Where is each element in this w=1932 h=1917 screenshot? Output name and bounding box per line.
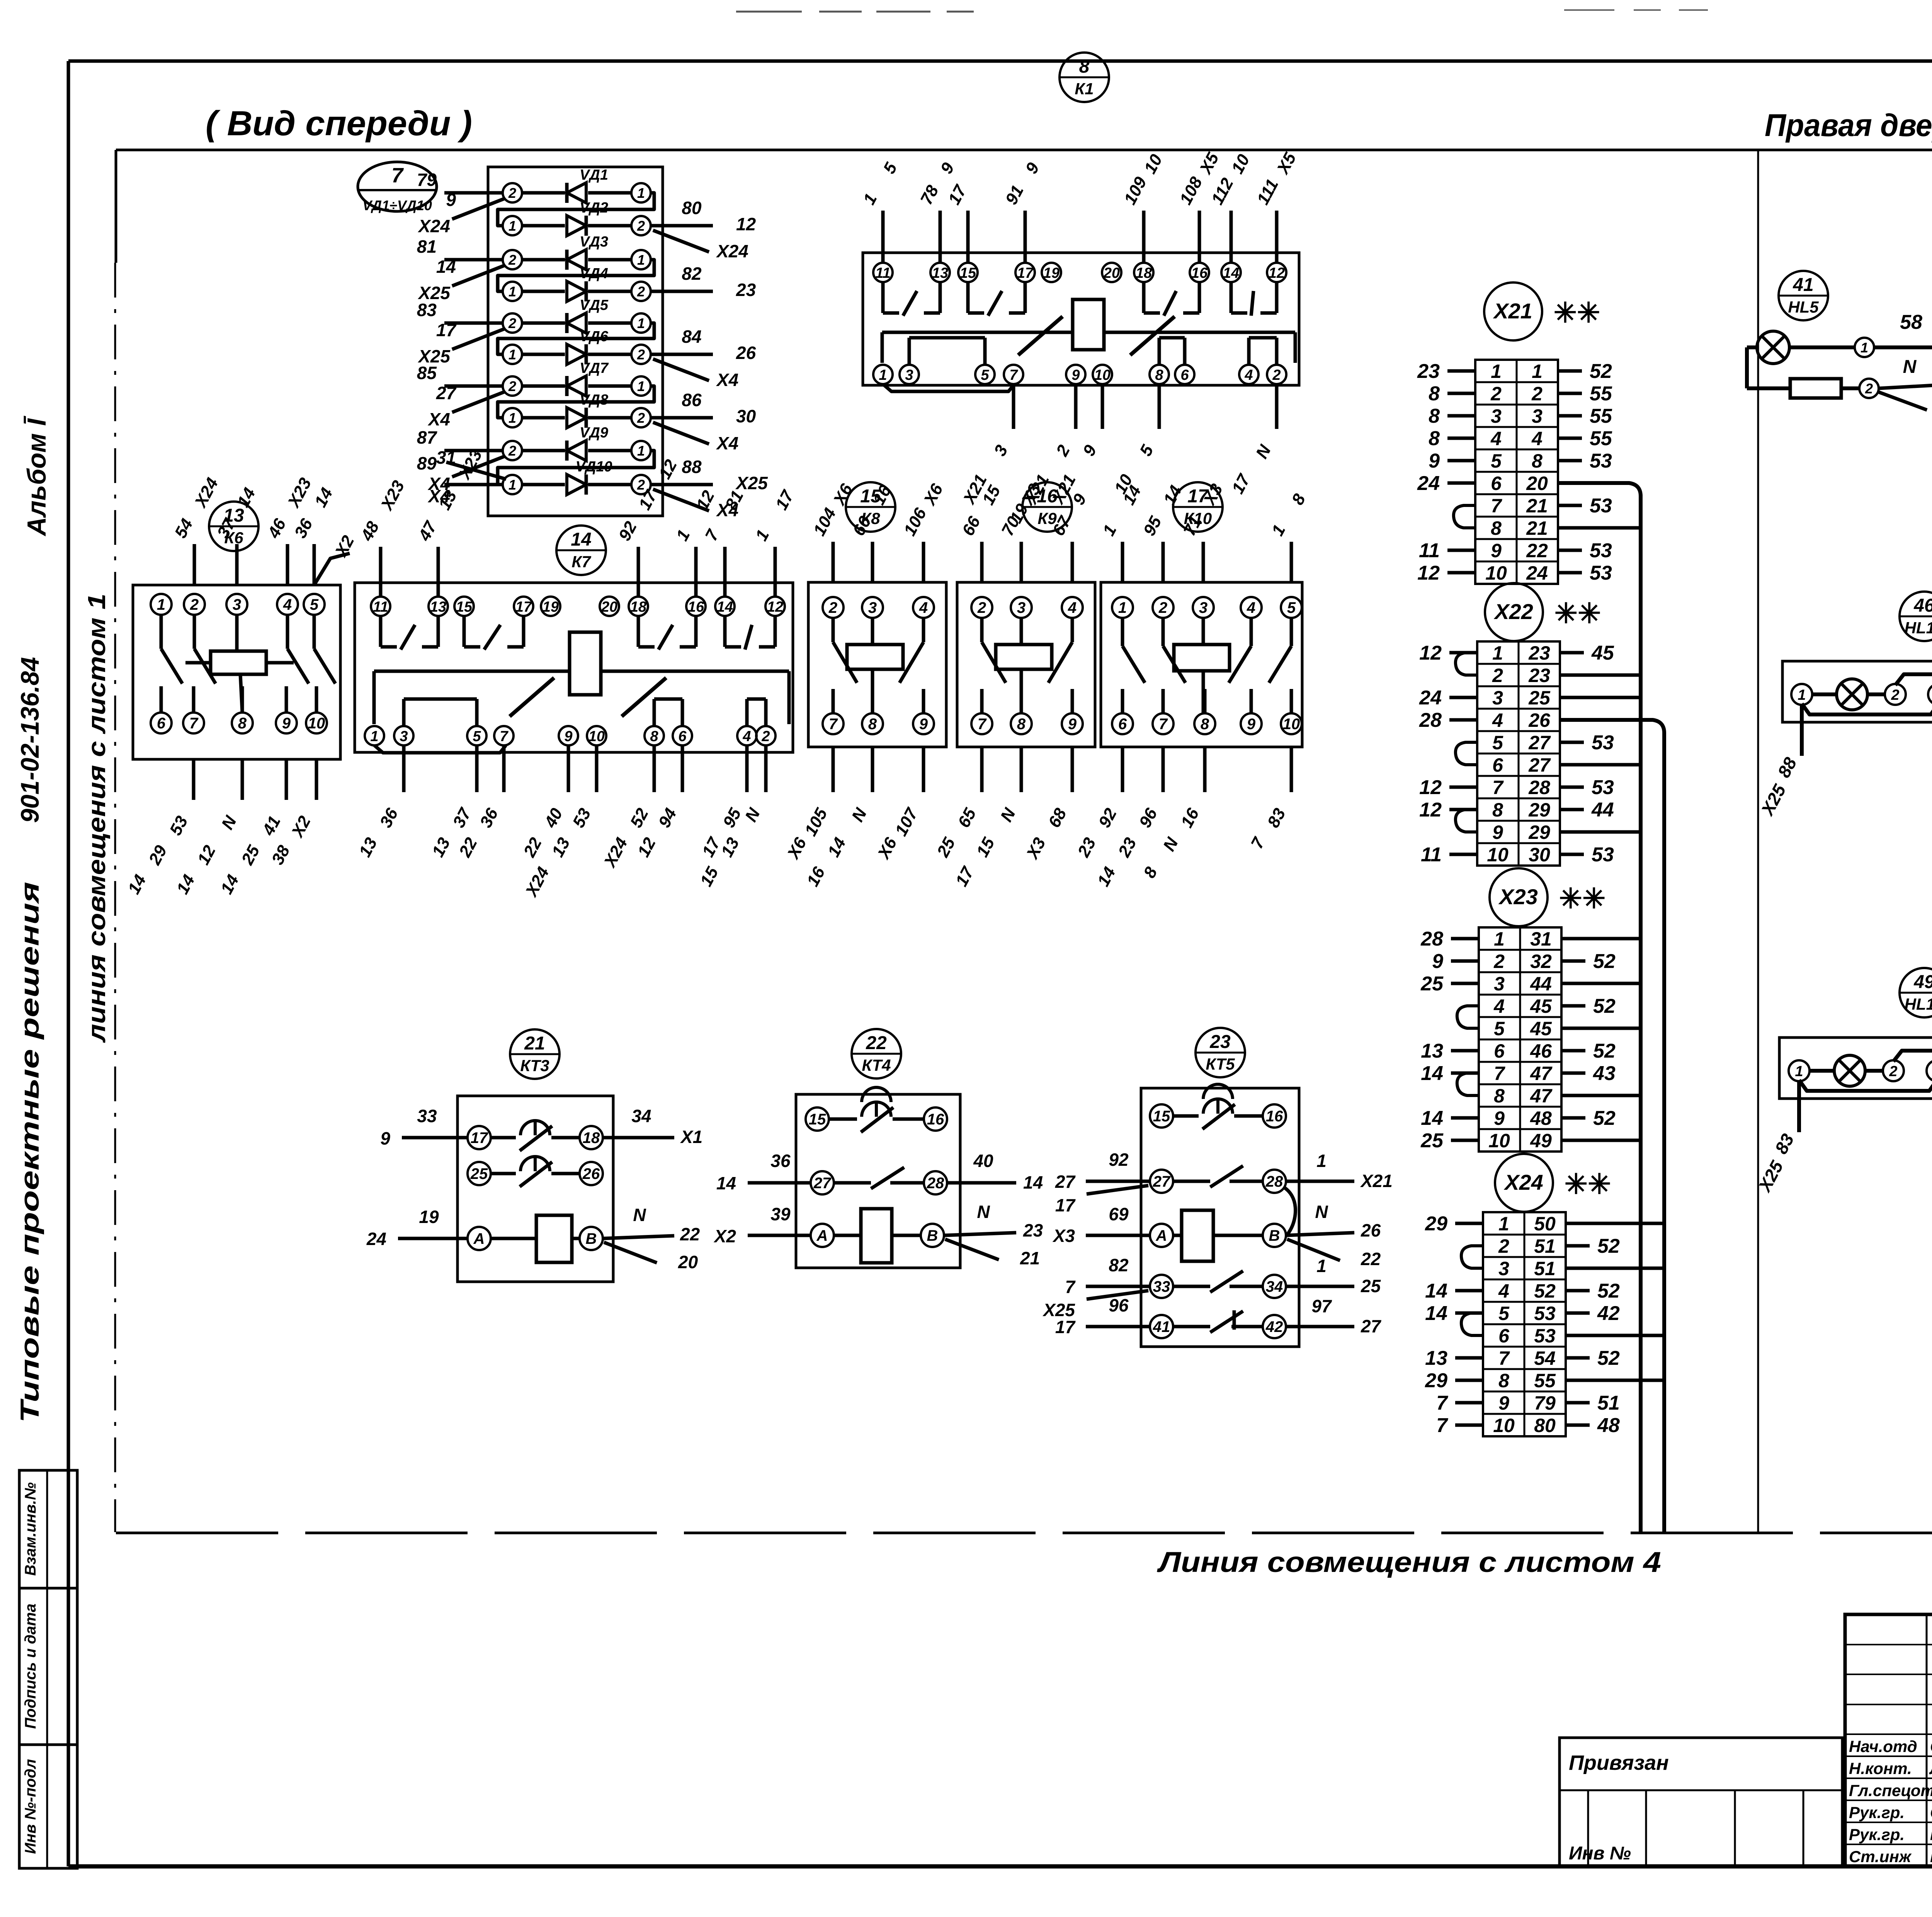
svg-text:1: 1 — [1118, 599, 1127, 616]
svg-text:X4: X4 — [716, 370, 738, 390]
svg-text:13: 13 — [932, 265, 948, 281]
svg-text:7: 7 — [1436, 1414, 1448, 1437]
svg-text:2: 2 — [1272, 367, 1281, 383]
svg-text:2: 2 — [1492, 665, 1503, 686]
svg-text:53: 53 — [1590, 450, 1612, 472]
svg-text:VД6: VД6 — [580, 328, 609, 345]
svg-text:X1: X1 — [680, 1127, 702, 1147]
svg-text:1: 1 — [1861, 340, 1868, 356]
svg-text:52: 52 — [1597, 1235, 1620, 1257]
svg-text:8: 8 — [1494, 1085, 1505, 1107]
svg-text:8: 8 — [1429, 427, 1440, 450]
svg-text:9: 9 — [1491, 540, 1502, 561]
svg-text:26: 26 — [736, 343, 756, 363]
svg-text:1: 1 — [509, 477, 516, 493]
svg-text:15: 15 — [1153, 1108, 1170, 1125]
svg-text:4: 4 — [1068, 599, 1077, 616]
svg-text:55: 55 — [1590, 405, 1612, 427]
svg-text:21: 21 — [1526, 495, 1548, 517]
svg-text:43: 43 — [1593, 1062, 1616, 1085]
svg-text:X24: X24 — [716, 241, 748, 261]
svg-text:53: 53 — [1592, 776, 1614, 799]
svg-text:92: 92 — [1109, 1150, 1129, 1170]
svg-text:6: 6 — [1498, 1325, 1510, 1347]
svg-text:44: 44 — [1530, 973, 1552, 995]
svg-text:10: 10 — [1283, 716, 1300, 733]
svg-text:3: 3 — [1199, 599, 1207, 616]
svg-text:1: 1 — [1798, 687, 1806, 703]
svg-text:11: 11 — [1421, 844, 1442, 866]
svg-text:1: 1 — [1492, 642, 1503, 664]
svg-text:B: B — [586, 1230, 597, 1247]
svg-text:N: N — [1903, 357, 1917, 377]
svg-text:9: 9 — [1498, 1392, 1509, 1414]
svg-text:55: 55 — [1590, 383, 1612, 405]
svg-text:5: 5 — [473, 728, 481, 745]
svg-text:Н.конт.: Н.конт. — [1849, 1759, 1912, 1778]
svg-text:✳✳: ✳✳ — [1565, 1169, 1611, 1200]
svg-text:48: 48 — [1597, 1414, 1620, 1437]
svg-text:9: 9 — [564, 728, 572, 745]
svg-text:4: 4 — [1490, 428, 1502, 449]
svg-text:55: 55 — [1534, 1370, 1556, 1391]
svg-text:5: 5 — [1287, 599, 1296, 616]
svg-text:12: 12 — [1419, 776, 1442, 799]
svg-text:79: 79 — [417, 170, 437, 190]
svg-text:69: 69 — [1109, 1204, 1129, 1224]
svg-text:1: 1 — [509, 347, 516, 362]
svg-text:8: 8 — [1155, 367, 1163, 383]
svg-text:25: 25 — [1420, 1129, 1444, 1152]
svg-text:10: 10 — [1488, 1130, 1510, 1152]
svg-text:97: 97 — [1311, 1296, 1332, 1316]
svg-text:( Вид спереди ): ( Вид спереди ) — [206, 104, 472, 143]
svg-text:20: 20 — [678, 1252, 698, 1272]
svg-text:4: 4 — [742, 728, 751, 745]
svg-text:1: 1 — [1795, 1063, 1803, 1080]
svg-text:53: 53 — [1590, 539, 1612, 562]
svg-text:14: 14 — [1425, 1302, 1447, 1325]
svg-text:2: 2 — [1490, 383, 1502, 405]
svg-text:14: 14 — [1421, 1107, 1443, 1129]
svg-text:9: 9 — [1492, 822, 1503, 843]
svg-text:52: 52 — [1534, 1280, 1556, 1302]
svg-text:23: 23 — [736, 280, 756, 300]
svg-text:39: 39 — [770, 1204, 791, 1224]
svg-text:5: 5 — [310, 596, 319, 613]
svg-text:10: 10 — [1487, 844, 1509, 866]
svg-text:VД2: VД2 — [580, 200, 608, 216]
svg-text:8: 8 — [1429, 383, 1440, 405]
svg-text:52: 52 — [1590, 360, 1612, 383]
svg-text:2: 2 — [637, 284, 645, 299]
svg-text:25: 25 — [1361, 1276, 1381, 1296]
svg-text:53: 53 — [1590, 562, 1612, 584]
svg-text:1: 1 — [157, 596, 165, 613]
svg-text:52: 52 — [1593, 950, 1616, 973]
svg-text:2: 2 — [1889, 1063, 1897, 1080]
svg-text:5: 5 — [1494, 1018, 1505, 1039]
svg-text:14: 14 — [1223, 265, 1239, 281]
svg-text:X24: X24 — [417, 216, 450, 236]
svg-text:6: 6 — [678, 728, 687, 745]
svg-text:Парамонов: Парамонов — [1930, 1825, 1932, 1844]
svg-text:53: 53 — [1590, 495, 1612, 517]
svg-text:52: 52 — [1597, 1347, 1620, 1369]
svg-text:45: 45 — [1530, 995, 1552, 1017]
svg-text:2: 2 — [508, 185, 516, 201]
svg-text:HL13: HL13 — [1905, 995, 1932, 1013]
svg-text:К1: К1 — [1075, 80, 1094, 98]
svg-text:17: 17 — [436, 320, 457, 340]
svg-text:A: A — [1156, 1227, 1167, 1244]
svg-text:22: 22 — [1526, 540, 1548, 561]
svg-text:Подпись и дата: Подпись и дата — [22, 1604, 39, 1729]
svg-text:N: N — [1315, 1202, 1328, 1222]
svg-text:14: 14 — [1425, 1280, 1447, 1302]
svg-text:48: 48 — [1530, 1107, 1552, 1129]
svg-text:16: 16 — [927, 1111, 944, 1128]
svg-text:8: 8 — [1491, 517, 1502, 539]
svg-text:52: 52 — [1593, 995, 1616, 1017]
svg-text:2: 2 — [637, 218, 645, 234]
svg-text:14: 14 — [571, 529, 591, 550]
svg-text:14: 14 — [717, 599, 733, 615]
svg-text:3: 3 — [1492, 687, 1503, 709]
svg-text:85: 85 — [417, 363, 437, 383]
svg-text:1: 1 — [1316, 1151, 1327, 1171]
svg-text:1: 1 — [509, 410, 516, 426]
svg-text:17: 17 — [515, 599, 532, 615]
svg-text:24: 24 — [366, 1229, 386, 1249]
svg-text:VД1÷VД10: VД1÷VД10 — [362, 197, 432, 213]
svg-text:7: 7 — [391, 164, 404, 187]
svg-text:B: B — [927, 1227, 938, 1244]
svg-text:29: 29 — [1425, 1369, 1447, 1392]
svg-text:2: 2 — [637, 410, 645, 426]
svg-text:Альбом Ī: Альбом Ī — [22, 415, 51, 537]
svg-text:8: 8 — [1498, 1370, 1509, 1391]
svg-text:7: 7 — [1159, 716, 1168, 733]
svg-text:88: 88 — [682, 457, 702, 477]
svg-text:23: 23 — [1528, 642, 1550, 664]
svg-text:1: 1 — [1491, 361, 1502, 382]
svg-text:X4: X4 — [716, 433, 738, 453]
svg-text:2: 2 — [637, 347, 645, 362]
svg-text:26: 26 — [1528, 709, 1551, 731]
svg-text:VД5: VД5 — [580, 297, 609, 313]
svg-text:1: 1 — [1532, 361, 1543, 382]
svg-text:53: 53 — [1592, 844, 1614, 866]
svg-text:51: 51 — [1534, 1235, 1556, 1257]
svg-text:4: 4 — [1493, 995, 1505, 1017]
svg-text:34: 34 — [631, 1106, 651, 1126]
svg-text:2: 2 — [1531, 383, 1543, 405]
svg-text:20: 20 — [1103, 265, 1120, 281]
svg-text:9: 9 — [1247, 716, 1256, 733]
svg-text:12: 12 — [736, 214, 756, 234]
svg-text:53: 53 — [1534, 1325, 1556, 1347]
svg-text:2: 2 — [761, 728, 770, 745]
svg-text:3: 3 — [1017, 599, 1026, 616]
svg-text:50: 50 — [1534, 1213, 1556, 1235]
svg-text:Линия совмещения с листом: Линия совмещения с листом 4 — [1156, 1546, 1661, 1578]
svg-text:6: 6 — [1491, 473, 1502, 494]
svg-text:A: A — [816, 1227, 828, 1244]
svg-text:23: 23 — [1417, 360, 1440, 383]
svg-text:46: 46 — [1913, 595, 1932, 616]
svg-text:Рук.гр.: Рук.гр. — [1849, 1825, 1905, 1844]
svg-text:96: 96 — [1109, 1295, 1129, 1315]
svg-text:12: 12 — [767, 599, 783, 615]
svg-text:Ст.инж: Ст.инж — [1849, 1847, 1912, 1866]
svg-text:53: 53 — [1592, 731, 1614, 754]
svg-text:51: 51 — [1597, 1392, 1620, 1414]
svg-text:Семин: Семин — [1930, 1803, 1932, 1822]
svg-text:23: 23 — [1209, 1032, 1231, 1052]
svg-text:1: 1 — [879, 367, 887, 383]
svg-text:N: N — [633, 1205, 646, 1225]
svg-text:К7: К7 — [571, 553, 591, 571]
svg-text:3: 3 — [1498, 1258, 1509, 1279]
svg-text:8: 8 — [1532, 450, 1543, 472]
svg-text:Типовые проектные решения: Типовые проектные решения — [15, 882, 44, 1423]
svg-text:11: 11 — [875, 265, 890, 281]
svg-text:41: 41 — [1793, 275, 1813, 295]
svg-text:4: 4 — [1247, 599, 1255, 616]
svg-text:14: 14 — [716, 1173, 736, 1193]
svg-text:VД10: VД10 — [575, 459, 612, 475]
svg-text:81: 81 — [417, 236, 437, 257]
svg-text:14: 14 — [436, 257, 456, 277]
svg-text:9: 9 — [1494, 1107, 1505, 1129]
svg-text:3: 3 — [868, 599, 877, 616]
svg-text:9: 9 — [1071, 367, 1080, 383]
svg-text:28: 28 — [1265, 1173, 1283, 1190]
svg-text:19: 19 — [419, 1207, 439, 1227]
svg-text:21: 21 — [1020, 1248, 1040, 1268]
svg-text:86: 86 — [682, 390, 702, 410]
svg-text:✳✳: ✳✳ — [1554, 598, 1601, 629]
svg-text:9: 9 — [1068, 716, 1077, 733]
svg-text:6: 6 — [1494, 1040, 1505, 1062]
svg-text:4: 4 — [1498, 1280, 1509, 1302]
svg-text:9: 9 — [1429, 450, 1440, 472]
svg-text:11: 11 — [1419, 539, 1440, 562]
svg-text:27: 27 — [1153, 1173, 1171, 1190]
svg-text:47: 47 — [1530, 1063, 1553, 1084]
svg-text:27: 27 — [813, 1175, 832, 1192]
svg-text:7: 7 — [1494, 1063, 1505, 1084]
svg-text:40: 40 — [973, 1151, 993, 1171]
svg-text:3: 3 — [233, 596, 241, 613]
svg-text:33: 33 — [417, 1106, 437, 1126]
svg-text:20: 20 — [601, 599, 617, 615]
svg-text:8: 8 — [1079, 56, 1090, 77]
svg-text:31: 31 — [1530, 928, 1552, 950]
svg-text:1: 1 — [1316, 1256, 1327, 1276]
svg-text:10: 10 — [1094, 367, 1111, 383]
svg-text:24: 24 — [1419, 687, 1442, 709]
svg-text:52: 52 — [1593, 1040, 1616, 1062]
svg-text:5: 5 — [981, 367, 989, 383]
svg-text:16: 16 — [1191, 265, 1208, 281]
svg-text:46: 46 — [1530, 1040, 1552, 1062]
svg-text:1: 1 — [1498, 1213, 1509, 1235]
svg-text:4: 4 — [283, 596, 292, 613]
svg-text:13: 13 — [430, 599, 446, 615]
svg-text:8: 8 — [650, 728, 658, 745]
svg-text:52: 52 — [1593, 1107, 1616, 1129]
svg-text:28: 28 — [1420, 928, 1443, 950]
svg-text:VД8: VД8 — [580, 392, 609, 408]
svg-text:1: 1 — [1494, 928, 1505, 950]
svg-text:12: 12 — [1417, 562, 1440, 584]
svg-text:16: 16 — [688, 599, 704, 615]
svg-text:87: 87 — [417, 427, 438, 447]
svg-text:9: 9 — [919, 716, 928, 733]
svg-text:8: 8 — [1492, 799, 1503, 821]
svg-text:13: 13 — [1425, 1347, 1447, 1369]
svg-text:30: 30 — [736, 406, 756, 426]
svg-text:23: 23 — [1528, 665, 1550, 686]
svg-text:27: 27 — [1055, 1172, 1076, 1192]
svg-text:14: 14 — [1023, 1172, 1043, 1192]
svg-text:Рук.гр.: Рук.гр. — [1849, 1803, 1905, 1822]
svg-text:7: 7 — [1492, 777, 1504, 798]
svg-text:1: 1 — [637, 443, 645, 459]
svg-text:4: 4 — [1244, 367, 1253, 383]
svg-text:89: 89 — [417, 453, 437, 473]
svg-text:45: 45 — [1530, 1018, 1552, 1039]
svg-text:82: 82 — [1109, 1255, 1129, 1275]
svg-text:30: 30 — [1529, 844, 1550, 866]
svg-text:2: 2 — [190, 596, 199, 613]
svg-text:VД1: VД1 — [580, 167, 608, 183]
svg-text:7: 7 — [1009, 367, 1018, 383]
svg-text:18: 18 — [583, 1129, 600, 1146]
svg-text:28: 28 — [1528, 777, 1550, 798]
svg-text:10: 10 — [588, 728, 605, 745]
svg-text:7: 7 — [978, 716, 987, 733]
svg-text:✳✳: ✳✳ — [1559, 883, 1606, 914]
svg-text:7: 7 — [1436, 1392, 1448, 1414]
svg-text:Субботин: Субботин — [1930, 1737, 1932, 1755]
svg-text:58: 58 — [1900, 311, 1922, 333]
svg-text:2: 2 — [1865, 381, 1873, 396]
svg-text:10: 10 — [1485, 562, 1507, 584]
svg-text:8: 8 — [1429, 405, 1440, 427]
svg-text:3: 3 — [905, 367, 913, 383]
svg-text:25: 25 — [470, 1165, 488, 1182]
svg-text:17: 17 — [1017, 265, 1034, 281]
svg-text:7: 7 — [1065, 1277, 1076, 1297]
svg-text:49: 49 — [1530, 1130, 1552, 1152]
svg-text:X3: X3 — [1052, 1226, 1075, 1246]
svg-text:VД3: VД3 — [580, 234, 608, 250]
svg-text:10: 10 — [308, 715, 325, 732]
svg-text:Гл.спецотд.: Гл.спецотд. — [1849, 1781, 1932, 1800]
svg-text:51: 51 — [1534, 1258, 1556, 1279]
svg-text:901-02-136.84: 901-02-136.84 — [15, 657, 44, 823]
svg-text:2: 2 — [828, 599, 837, 616]
svg-text:19: 19 — [543, 599, 559, 615]
svg-text:22: 22 — [680, 1224, 700, 1244]
svg-text:9: 9 — [1432, 950, 1443, 973]
svg-text:6: 6 — [157, 715, 166, 732]
svg-text:2: 2 — [1498, 1235, 1509, 1257]
svg-text:26: 26 — [582, 1165, 600, 1182]
svg-text:54: 54 — [1534, 1347, 1556, 1369]
svg-text:4: 4 — [919, 599, 928, 616]
svg-text:9: 9 — [380, 1128, 390, 1148]
svg-text:X25: X25 — [735, 473, 768, 493]
svg-text:15: 15 — [809, 1111, 826, 1128]
svg-text:1: 1 — [637, 185, 645, 201]
svg-text:КТ5: КТ5 — [1206, 1055, 1235, 1073]
svg-text:✳✳: ✳✳ — [1554, 298, 1600, 328]
svg-text:КТ4: КТ4 — [862, 1056, 891, 1074]
svg-text:18: 18 — [1136, 265, 1152, 281]
svg-text:3: 3 — [1494, 973, 1505, 995]
svg-text:33: 33 — [1153, 1278, 1170, 1295]
svg-text:7: 7 — [189, 715, 199, 732]
svg-text:12: 12 — [1269, 265, 1285, 281]
svg-text:N: N — [977, 1202, 990, 1222]
svg-text:7: 7 — [1491, 495, 1502, 517]
svg-text:79: 79 — [1534, 1392, 1556, 1414]
svg-text:42: 42 — [1265, 1318, 1283, 1335]
svg-text:VД4: VД4 — [580, 265, 608, 282]
svg-text:3: 3 — [400, 728, 408, 745]
svg-text:5: 5 — [1492, 732, 1503, 754]
svg-text:80: 80 — [1534, 1415, 1556, 1436]
svg-text:1: 1 — [637, 252, 645, 268]
svg-text:17: 17 — [471, 1129, 488, 1146]
svg-text:80: 80 — [682, 198, 702, 218]
svg-text:6: 6 — [1118, 716, 1127, 733]
svg-text:2: 2 — [1493, 951, 1505, 972]
svg-text:1: 1 — [509, 218, 516, 234]
svg-text:B: B — [1269, 1227, 1280, 1244]
svg-text:1: 1 — [637, 315, 645, 331]
svg-text:2: 2 — [1891, 687, 1899, 703]
svg-text:1: 1 — [637, 378, 645, 394]
svg-text:Правая дверь шкафа ( Вид со ст: Правая дверь шкафа ( Вид со стороны монт… — [1765, 108, 1932, 143]
svg-text:Ганелина: Ганелина — [1930, 1847, 1932, 1866]
svg-text:19: 19 — [1043, 265, 1060, 281]
svg-text:VД9: VД9 — [580, 425, 608, 441]
svg-text:5: 5 — [1498, 1303, 1510, 1324]
svg-text:32: 32 — [1530, 951, 1552, 972]
svg-text:2: 2 — [1158, 599, 1167, 616]
svg-text:HL18: HL18 — [1905, 619, 1932, 637]
svg-text:24: 24 — [1526, 562, 1548, 584]
svg-text:КТ3: КТ3 — [520, 1056, 549, 1075]
svg-text:83: 83 — [417, 300, 437, 320]
svg-text:8: 8 — [238, 715, 247, 732]
svg-text:линия совмещения с листом 1: линия совмещения с листом 1 — [83, 594, 111, 1043]
svg-text:VД7: VД7 — [580, 360, 609, 376]
svg-text:11: 11 — [373, 599, 388, 615]
svg-text:29: 29 — [1528, 799, 1550, 821]
svg-text:52: 52 — [1597, 1280, 1620, 1302]
svg-text:Инв №: Инв № — [1569, 1843, 1631, 1864]
svg-text:8: 8 — [1201, 716, 1209, 733]
svg-text:2: 2 — [977, 599, 986, 616]
svg-text:5: 5 — [1491, 450, 1502, 472]
svg-text:84: 84 — [682, 327, 701, 347]
